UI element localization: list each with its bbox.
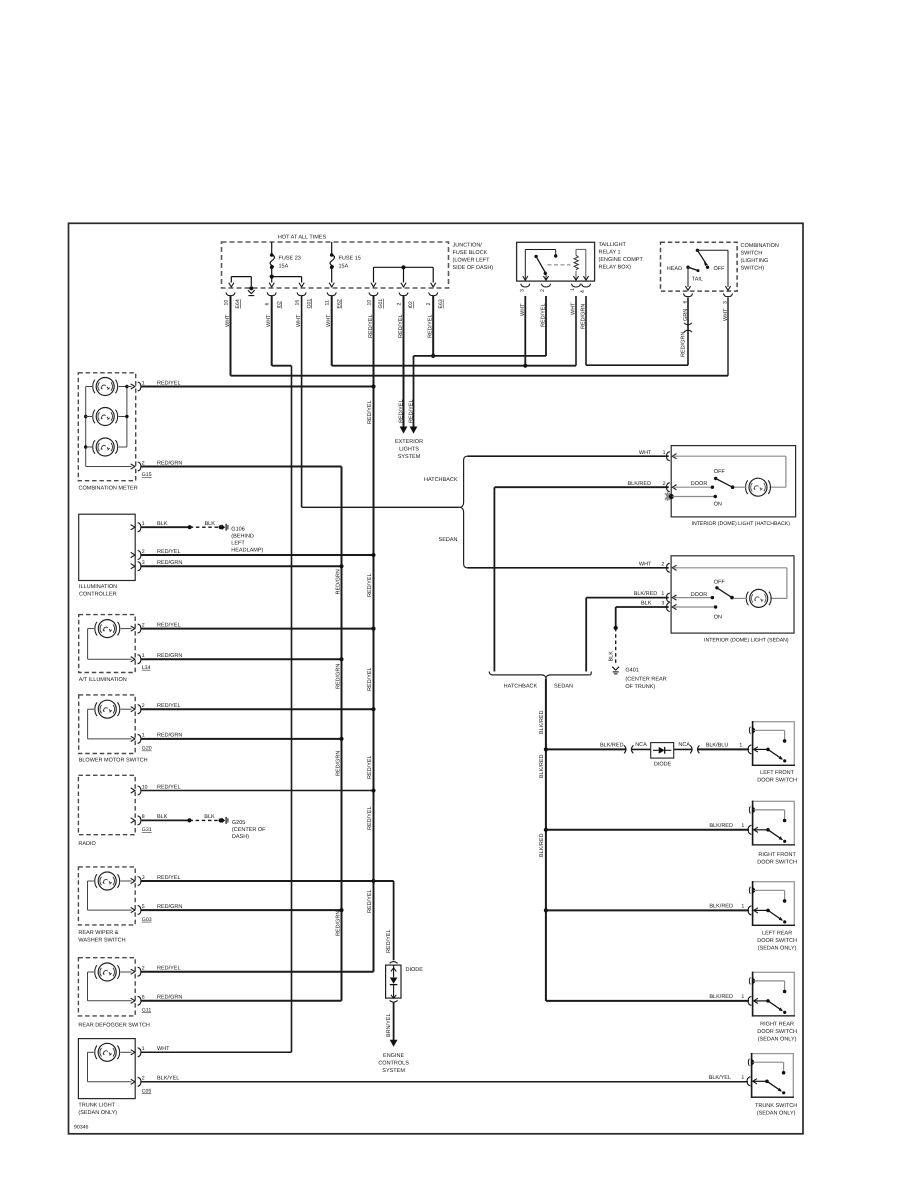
dome sedan inner feed route: [673, 567, 787, 569]
fuse 15: [330, 253, 334, 257]
wire taillight relay pin1 drop: [575, 296, 577, 366]
svg-text:3: 3: [722, 301, 728, 304]
trunk light box: [78, 1039, 135, 1099]
svg-text:FUSE 15: FUSE 15: [339, 256, 361, 262]
svg-text:LIGHTS: LIGHTS: [399, 447, 419, 453]
dome hb pin 2 row BLK/RED: [494, 486, 668, 488]
wiper internal wires: [121, 880, 132, 882]
ground G106: [222, 524, 225, 530]
svg-text:HATCHBACK: HATCHBACK: [424, 477, 458, 483]
connector pin 11 E62 (WHT): [327, 292, 336, 295]
dome sedan pin 3 BLK row: [616, 606, 669, 608]
A/T pin 2 row: [141, 628, 374, 630]
wiper pin 5 row: [141, 909, 342, 911]
wire WHT to sedan dome: [468, 567, 669, 569]
svg-text:BLK/YEL: BLK/YEL: [709, 1075, 731, 1081]
ground G401: [612, 667, 619, 670]
svg-text:BLK/RED: BLK/RED: [709, 823, 733, 829]
svg-text:RELAY 1: RELAY 1: [599, 249, 621, 255]
wire WHT net E64 horizontal run: [231, 375, 729, 377]
door row 3 wire BLK/RED: [546, 909, 749, 911]
radio box: [78, 775, 135, 834]
svg-text:BLK: BLK: [608, 651, 614, 662]
svg-text:BLK/RED: BLK/RED: [539, 754, 545, 778]
arrow pin 10 E64: [229, 283, 234, 287]
svg-text:1: 1: [741, 823, 744, 829]
svg-text:HOT AT ALL TIMES: HOT AT ALL TIMES: [278, 234, 327, 240]
junction/fuse block box: [222, 242, 449, 288]
svg-text:2: 2: [426, 303, 432, 306]
svg-text:90346: 90346: [74, 1125, 89, 1131]
wire WHT to combination switch pin 3: [727, 298, 729, 376]
svg-text:6: 6: [682, 301, 688, 304]
trunk pin 2: [131, 1079, 135, 1084]
svg-text:RED/YEL: RED/YEL: [386, 929, 392, 953]
interior dome light sedan box: [671, 556, 794, 633]
door row 1 wire BLK/RED: [546, 748, 626, 750]
svg-text:(LIGHTING: (LIGHTING: [741, 258, 769, 264]
dome hb ON contact wire: [673, 496, 716, 498]
svg-text:G11: G11: [142, 1008, 152, 1014]
svg-text:HEAD: HEAD: [667, 266, 682, 272]
wire fuse23 to G01 branch: [272, 276, 302, 278]
svg-text:3: 3: [142, 560, 145, 566]
combination meter lamp 3: [96, 438, 114, 456]
illum pin 3 row: [141, 565, 342, 567]
svg-text:RED/GRN: RED/GRN: [581, 304, 587, 329]
wire WHT G01 feed to dome brace: [302, 506, 460, 508]
dome hb pivot to lamp wire: [734, 486, 746, 488]
illum pin 1: [131, 525, 135, 530]
trunk pin 2 row BLK/YEL long: [141, 1081, 748, 1083]
combination meter box: [78, 373, 135, 481]
comb meter pin 1: [131, 384, 135, 389]
relay coil: [574, 255, 578, 269]
inline connector NCA left: [624, 745, 626, 753]
svg-text:SEDAN: SEDAN: [439, 537, 458, 543]
svg-text:BLK: BLK: [205, 521, 216, 527]
svg-text:DOOR SWITCH: DOOR SWITCH: [757, 1029, 797, 1035]
svg-text:REAR WIPER &: REAR WIPER &: [78, 930, 118, 936]
svg-text:BLK: BLK: [157, 814, 168, 820]
comb switch pin connectors: [684, 293, 693, 296]
svg-text:NCA: NCA: [678, 742, 690, 748]
svg-text:RED/YEL: RED/YEL: [367, 806, 373, 830]
right rear door switch case ground: [749, 978, 750, 985]
svg-text:1: 1: [663, 450, 666, 456]
svg-text:SIDE OF DASH): SIDE OF DASH): [453, 265, 494, 271]
svg-text:HEADLAMP): HEADLAMP): [231, 548, 263, 554]
svg-text:RED/YEL: RED/YEL: [367, 755, 373, 779]
wire RED/YEL G01 bus: [373, 296, 375, 972]
svg-text:1: 1: [142, 1046, 145, 1052]
svg-text:RED/GRN: RED/GRN: [157, 560, 182, 566]
svg-text:(SEDAN ONLY): (SEDAN ONLY): [757, 1110, 796, 1116]
wire BLK to ground G401: [615, 607, 617, 628]
ground G205: [222, 818, 225, 824]
right front door switch pole and arm: [754, 829, 768, 831]
svg-text:RED/YEL: RED/YEL: [157, 380, 181, 386]
svg-text:DOOR: DOOR: [691, 592, 708, 598]
svg-text:G03: G03: [142, 917, 152, 923]
svg-text:6: 6: [142, 995, 145, 1001]
left rear door switch pin 1: [748, 906, 751, 915]
svg-text:DIODE: DIODE: [654, 762, 672, 768]
svg-text:BLK/RED: BLK/RED: [628, 481, 652, 487]
svg-text:RED/YEL: RED/YEL: [408, 399, 414, 423]
dome sedan pin 1 row BLK/RED: [586, 597, 669, 599]
svg-text:COMBINATION: COMBINATION: [741, 243, 779, 249]
illum pin 3: [131, 564, 135, 569]
svg-text:G205: G205: [232, 820, 245, 826]
right front door switch ground contact wire: [754, 809, 785, 811]
door row 4 wire BLK/RED: [546, 1000, 749, 1002]
svg-text:RED/GRN: RED/GRN: [157, 904, 182, 910]
A/T lamp internal wires: [121, 628, 132, 630]
junction block internal ground: [249, 286, 253, 290]
svg-text:RIGHT FRONT: RIGHT FRONT: [758, 852, 796, 858]
wiper pin 5: [131, 908, 135, 913]
svg-text:15A: 15A: [279, 264, 289, 270]
blower pin 1: [131, 736, 135, 741]
svg-text:ON: ON: [714, 501, 722, 507]
dome hb lamp: [749, 478, 767, 496]
wire WHT I02 vertical: [271, 296, 273, 366]
svg-text:LEFT REAR: LEFT REAR: [762, 930, 792, 936]
svg-text:(BEHIND: (BEHIND: [231, 534, 254, 540]
svg-text:E62: E62: [336, 299, 342, 308]
svg-text:1: 1: [142, 380, 145, 386]
dashed BLK to ground: [189, 819, 220, 821]
svg-text:RED/GRN: RED/GRN: [335, 751, 341, 776]
wire BRN/YEL to engine controls: [393, 1003, 395, 1040]
right rear door switch box: [753, 972, 795, 1016]
svg-text:L34: L34: [142, 665, 151, 671]
A/T illumination box: [79, 615, 136, 673]
svg-text:(ENGINE COMPT: (ENGINE COMPT: [599, 257, 644, 263]
svg-text:RED/GRN: RED/GRN: [680, 332, 686, 357]
fuse 15 output wire: [331, 267, 333, 282]
dome hb switch common wire: [673, 486, 712, 488]
svg-text:ON: ON: [714, 614, 722, 620]
engine controls arrow: [390, 1040, 398, 1047]
svg-text:1: 1: [739, 742, 742, 748]
svg-text:G20: G20: [142, 746, 152, 752]
svg-text:INTERIOR (DOME) LIGHT (HATCHBA: INTERIOR (DOME) LIGHT (HATCHBACK): [692, 521, 791, 527]
arrow pin 11 E62: [329, 283, 334, 287]
border frame: [69, 223, 804, 1134]
svg-text:10: 10: [223, 300, 229, 306]
svg-text:FUSE 23: FUSE 23: [279, 256, 301, 262]
blower pin 2 row: [141, 708, 374, 710]
right front door switch case ground: [749, 807, 750, 814]
wire WHT E62 vertical: [331, 296, 333, 366]
svg-text:(SEDAN ONLY): (SEDAN ONLY): [758, 1036, 797, 1042]
svg-text:G01: G01: [306, 299, 312, 309]
svg-text:RED/YEL: RED/YEL: [157, 875, 181, 881]
wire RED/YEL I02 to exterior lights: [403, 296, 405, 427]
svg-text:8: 8: [142, 814, 145, 820]
svg-text:G106: G106: [231, 527, 244, 533]
combination switch box: [661, 242, 738, 291]
A/T pin 1 row: [141, 658, 342, 660]
svg-text:WHT: WHT: [723, 308, 729, 321]
svg-text:1: 1: [570, 288, 576, 291]
illum pin 1 BLK wire: [141, 526, 190, 528]
svg-text:BLK/RED: BLK/RED: [539, 833, 545, 857]
svg-text:RED/YEL: RED/YEL: [157, 784, 181, 790]
svg-text:BLK: BLK: [641, 601, 652, 607]
svg-text:BLK/RED: BLK/RED: [634, 591, 658, 597]
wire out of diode: [674, 748, 693, 750]
svg-text:COMBINATION METER: COMBINATION METER: [79, 486, 138, 492]
svg-text:G401: G401: [625, 667, 638, 673]
svg-text:RED/YEL: RED/YEL: [157, 549, 181, 555]
dome sedan ON contact wire: [673, 606, 716, 608]
svg-text:BLK/RED: BLK/RED: [709, 994, 733, 1000]
exterior lights arrow 2: [410, 427, 418, 434]
wiper pin 3: [131, 878, 135, 883]
svg-text:OF TRUNK): OF TRUNK): [625, 684, 655, 690]
svg-text:DOOR SWITCH: DOOR SWITCH: [757, 938, 797, 944]
svg-text:OFF: OFF: [714, 580, 726, 586]
svg-text:SEDAN: SEDAN: [554, 683, 573, 689]
relay pin arrows: [523, 276, 528, 280]
svg-text:2: 2: [142, 966, 145, 972]
wire BLK/RED hatchback drop: [493, 487, 495, 671]
wiper pin 3 row: [141, 880, 394, 882]
svg-text:2: 2: [142, 1076, 145, 1082]
svg-text:EXTERIOR: EXTERIOR: [395, 439, 423, 445]
interior dome light hatchback box: [671, 446, 795, 517]
fuse F15 feed wire: [331, 242, 333, 255]
illum pin 2: [131, 552, 135, 557]
wire RED/YEL branch to diode: [374, 880, 394, 882]
door row 2 wire BLK/RED: [546, 829, 749, 831]
comb switch pin arrows: [685, 286, 690, 290]
connector pin 10 G01 (RED/YEL): [369, 292, 378, 295]
svg-text:11: 11: [325, 300, 331, 305]
left front door switch ground contact wire: [754, 729, 785, 731]
svg-text:RED/GRN: RED/GRN: [157, 733, 182, 739]
svg-text:2: 2: [540, 289, 546, 292]
wire WHT to hatchback dome: [468, 455, 669, 457]
blower lamp: [98, 700, 116, 718]
combination meter internal wiring: [86, 386, 92, 388]
svg-text:RED/YEL: RED/YEL: [157, 622, 181, 628]
svg-text:WASHER SWITCH: WASHER SWITCH: [78, 937, 125, 943]
svg-text:REAR DEFOGGER SWITCH: REAR DEFOGGER SWITCH: [78, 1023, 150, 1029]
radio pin 10 row: [141, 790, 374, 792]
svg-text:1: 1: [661, 591, 664, 597]
blower internal wires: [121, 708, 132, 710]
svg-text:DASH): DASH): [232, 834, 249, 840]
wire WHT G01 vertical: [301, 296, 303, 507]
wire RED/YEL E63 vertical: [432, 296, 434, 356]
radio pin 10: [131, 788, 135, 793]
taillight relay box: [517, 242, 595, 281]
svg-text:RED/YEL: RED/YEL: [367, 667, 373, 691]
connector pin 10 E64 (WHT): [226, 292, 235, 295]
wire WHT I02 jog: [272, 365, 292, 367]
blower pin 1 row: [141, 738, 342, 740]
svg-text:RED/YEL: RED/YEL: [157, 966, 181, 972]
connector pin 6 I02 (WHT): [267, 292, 276, 295]
left front door switch pin 1: [748, 745, 751, 754]
fuse 23: [270, 253, 274, 257]
svg-text:WHT: WHT: [157, 1046, 170, 1052]
svg-text:WHT: WHT: [520, 303, 526, 316]
svg-text:GRN: GRN: [683, 309, 689, 321]
relay switch internal: [524, 250, 526, 282]
svg-text:1: 1: [142, 653, 145, 659]
svg-text:SYSTEM: SYSTEM: [398, 454, 421, 460]
arrow pin 6 I02: [269, 283, 274, 287]
illum pin 2 row: [141, 554, 374, 556]
rear defogger switch box: [78, 958, 135, 1016]
dome hb inner feed route: [673, 455, 786, 457]
wire BLK/RED sedan drop: [585, 598, 587, 672]
svg-text:RED/GRN: RED/GRN: [157, 460, 182, 466]
diode symbol: [393, 965, 395, 977]
svg-text:DOOR: DOOR: [691, 481, 708, 487]
svg-text:2: 2: [396, 303, 402, 306]
svg-text:SWITCH): SWITCH): [741, 265, 765, 271]
right rear door switch pin 1: [748, 996, 751, 1005]
svg-text:1: 1: [741, 903, 744, 909]
svg-text:6: 6: [265, 303, 271, 306]
svg-text:10: 10: [142, 784, 148, 790]
svg-text:(CENTER OF: (CENTER OF: [232, 827, 266, 833]
svg-text:1: 1: [142, 521, 145, 527]
svg-text:RED/YEL: RED/YEL: [367, 573, 373, 597]
svg-text:BLK: BLK: [157, 521, 168, 527]
svg-text:WHT: WHT: [639, 561, 652, 567]
svg-text:RED/GRN: RED/GRN: [335, 569, 341, 594]
dome hb pin 1: [667, 452, 670, 461]
defogger pin 6: [131, 998, 135, 1003]
svg-text:2: 2: [142, 460, 145, 466]
svg-text:RED/GRN: RED/GRN: [157, 653, 182, 659]
dome sedan pin 2: [667, 563, 670, 572]
wire WHT net to taillight relay: [332, 365, 576, 367]
left front door switch box: [753, 722, 795, 766]
svg-text:3: 3: [142, 875, 145, 881]
left rear door switch box: [753, 882, 795, 926]
svg-text:BLK/YEL: BLK/YEL: [157, 1076, 179, 1082]
wiper lamp: [98, 872, 116, 890]
svg-text:RED/GRN: RED/GRN: [335, 664, 341, 689]
svg-text:16: 16: [294, 300, 300, 306]
internal link E64 to ground: [231, 276, 251, 278]
svg-text:SWITCH: SWITCH: [741, 250, 763, 256]
inline connector NCA right: [690, 745, 692, 753]
svg-text:BLK/BLU: BLK/BLU: [706, 742, 729, 748]
svg-text:LEFT: LEFT: [231, 541, 245, 547]
connector pin 2 E63 (RED/YEL): [429, 292, 438, 295]
trunk switch case ground: [748, 1059, 749, 1066]
svg-text:(LOWER LEFT: (LOWER LEFT: [453, 257, 491, 263]
svg-text:RELAY BOX): RELAY BOX): [599, 264, 632, 270]
svg-text:DOOR SWITCH: DOOR SWITCH: [757, 777, 797, 783]
svg-text:RED/YEL: RED/YEL: [367, 400, 373, 424]
trunk pin 1: [131, 1050, 135, 1055]
svg-text:BRN/YEL: BRN/YEL: [386, 1013, 392, 1037]
red/yel distribution bracket: [374, 266, 434, 268]
svg-text:E64: E64: [235, 299, 241, 308]
svg-text:RED/YEL: RED/YEL: [541, 303, 547, 327]
A/T pin 2: [131, 626, 135, 631]
svg-text:1: 1: [741, 1075, 744, 1081]
trunk pin 1 row WHT: [141, 1051, 292, 1053]
svg-text:RED/YEL: RED/YEL: [398, 399, 404, 423]
right rear door switch ground contact wire: [754, 980, 785, 982]
brace hatchback/sedan split: [460, 456, 468, 568]
svg-text:(SEDAN ONLY): (SEDAN ONLY): [78, 1110, 117, 1116]
svg-text:C05: C05: [142, 1089, 152, 1095]
svg-text:TRUNK SWITCH: TRUNK SWITCH: [755, 1103, 797, 1109]
blower motor switch box: [79, 695, 136, 754]
dome sedan switch arm: [717, 588, 732, 598]
svg-text:BLK/RED: BLK/RED: [709, 903, 733, 909]
wire WHT E64 vertical: [230, 296, 232, 376]
svg-text:1: 1: [741, 994, 744, 1000]
connector pin 16 G01 (WHT): [297, 292, 306, 295]
defogger pin 2: [131, 969, 135, 974]
svg-text:(SEDAN ONLY): (SEDAN ONLY): [758, 945, 797, 951]
svg-text:2: 2: [142, 549, 145, 555]
dome sedan switch common wire: [673, 597, 712, 599]
svg-text:G15: G15: [142, 472, 152, 478]
svg-text:2: 2: [142, 703, 145, 709]
svg-text:I02: I02: [276, 301, 282, 308]
trunk switch box: [752, 1054, 794, 1098]
right front door switch box: [753, 801, 795, 845]
trunk switch pole and arm: [753, 1080, 767, 1082]
svg-text:3: 3: [519, 289, 525, 292]
arrow pin 2 I02 red/yel: [401, 283, 406, 287]
svg-text:10: 10: [366, 300, 372, 306]
wire RED/YEL E63 branch to relay pin2: [414, 355, 547, 357]
svg-text:RED/GRN: RED/GRN: [157, 995, 182, 1001]
wire RED/GRN relay pin4 to comb switch pin6: [585, 296, 587, 365]
comb meter pin 2 row RED/GRN: [141, 466, 342, 468]
svg-text:2: 2: [663, 481, 666, 487]
trunk light internal wires: [121, 1051, 132, 1053]
svg-text:2: 2: [142, 622, 145, 628]
svg-text:E63: E63: [438, 299, 444, 308]
relay internal dashed link: [548, 264, 571, 266]
left front door switch pole and arm: [754, 748, 768, 750]
svg-text:15A: 15A: [339, 264, 349, 270]
svg-text:RED/YEL: RED/YEL: [157, 703, 181, 709]
svg-text:DOOR SWITCH: DOOR SWITCH: [757, 859, 797, 865]
svg-text:ENGINE: ENGINE: [383, 1053, 404, 1059]
comb meter pin 2: [131, 464, 135, 469]
left rear door switch ground contact wire: [754, 889, 785, 891]
exterior lights arrow 1: [400, 427, 408, 434]
diode D (engine controls) box: [386, 965, 401, 998]
wire into diode: [632, 748, 651, 750]
trunk switch pin 1: [747, 1077, 750, 1086]
svg-text:HATCHBACK: HATCHBACK: [504, 683, 538, 689]
dome sedan pivot to lamp wire: [734, 597, 747, 599]
svg-text:1: 1: [142, 733, 145, 739]
svg-text:CONTROLS: CONTROLS: [378, 1061, 409, 1067]
arrow pin 16 G01: [299, 283, 304, 287]
right front door switch pin 1: [748, 825, 751, 834]
svg-text:G31: G31: [142, 827, 152, 833]
